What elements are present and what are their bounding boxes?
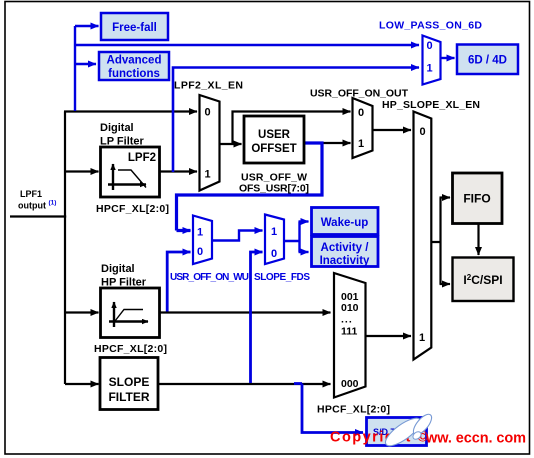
svg-text:0: 0 [205, 107, 211, 119]
wire black trunk vertical [64, 112, 66, 385]
wire USR_OFF_ON_WU output to SLOPE_FDS input 1 [212, 231, 263, 241]
svg-text:0: 0 [420, 126, 426, 138]
wire HP filter output to selector mux [160, 311, 331, 313]
svg-text:USR_OFF_ON_OUT: USR_OFF_ON_OUT [310, 88, 409, 100]
box Free-fall [101, 13, 168, 40]
wire LPF2 output riser to LOW_PASS_ON_6D input 1 [173, 68, 419, 173]
box S/D TAP [367, 418, 427, 446]
svg-text:111: 111 [341, 326, 358, 338]
box 6D/4D [457, 45, 518, 75]
svg-text:...: ... [341, 314, 353, 326]
wire blue USER OFFSET tap to USR_OFF_ON_WU input 1 [177, 143, 323, 231]
wire to I2C/SPI [440, 283, 451, 285]
svg-text:Activity /: Activity / [321, 242, 370, 254]
wire LOW_PASS_ON_6D output to 6D/4D [441, 57, 455, 59]
svg-text:1: 1 [358, 138, 364, 150]
svg-text:SLOPE: SLOPE [109, 375, 150, 389]
mux HPCF selector [334, 273, 366, 398]
svg-text:OFS_USR[7:0]: OFS_USR[7:0] [239, 183, 309, 195]
box SLOPE FILTER [100, 358, 158, 410]
wire blue to Advanced functions [75, 63, 96, 65]
svg-text:Digital: Digital [100, 122, 134, 134]
svg-text:LPF2_XL_EN: LPF2_XL_EN [174, 80, 243, 92]
box HP filter [101, 288, 160, 338]
wire blue HP output tap to USR_OFF_ON_WU input 0 [167, 252, 190, 312]
wire to FIFO [440, 196, 451, 198]
svg-text:000: 000 [341, 378, 359, 390]
wire USER OFFSET output to USR_OFF_ON_OUT input 1 [304, 142, 351, 144]
wire LPF1 output stub [10, 215, 66, 217]
box LPF2 [101, 147, 160, 197]
wire trunk to HP filter input [65, 311, 99, 313]
watermark copyright text [330, 430, 526, 447]
svg-text:output: output [18, 201, 46, 211]
svg-text:USR_OFF_ON_WU: USR_OFF_ON_WU [170, 272, 249, 283]
svg-text:ww. eccn. com: ww. eccn. com [425, 431, 526, 447]
wire branch up to USR_OFF_ON_OUT input 0 [233, 112, 351, 145]
svg-text:SLOPE_FDS: SLOPE_FDS [254, 272, 310, 283]
wire blue to LOW_PASS_ON_6D input 0 [75, 44, 419, 46]
svg-text:6D / 4D: 6D / 4D [468, 55, 507, 67]
wire trunk to LPF2 box input [65, 170, 99, 172]
svg-text:010: 010 [341, 302, 359, 314]
box Wake-up [312, 208, 379, 235]
svg-text:USER: USER [258, 129, 291, 141]
wire SLOPE FILTER output to selector mux [158, 383, 331, 385]
svg-text:0: 0 [427, 40, 433, 52]
svg-text:1: 1 [419, 332, 425, 344]
svg-text:1: 1 [205, 169, 211, 181]
wire trunk to SLOPE FILTER input [65, 383, 99, 385]
label LPF1 output [18, 189, 56, 211]
svg-text:LOW_PASS_ON_6D: LOW_PASS_ON_6D [379, 20, 482, 32]
svg-text:0: 0 [358, 107, 364, 119]
svg-text:HPCF_XL[2:0]: HPCF_XL[2:0] [317, 404, 390, 416]
svg-text:Digital: Digital [101, 263, 135, 275]
wire blue to Free-fall [75, 25, 99, 27]
svg-text:(1): (1) [49, 200, 57, 207]
svg-text:0: 0 [197, 246, 203, 258]
svg-text:Wake-up: Wake-up [321, 217, 369, 229]
mux LOW_PASS_ON_6D [423, 36, 441, 85]
svg-text:HPCF_XL[2:0]: HPCF_XL[2:0] [94, 343, 167, 355]
box Advanced functions [99, 52, 169, 80]
mux LPF2_XL_EN [200, 95, 220, 191]
svg-text:Free-fall: Free-fall [112, 22, 157, 34]
svg-text:OFFSET: OFFSET [251, 143, 296, 155]
svg-text:Advanced: Advanced [107, 55, 162, 67]
mux HP_SLOPE_XL_EN [414, 112, 432, 360]
svg-text:1: 1 [271, 226, 277, 238]
svg-text:Inactivity: Inactivity [320, 255, 370, 267]
svg-text:functions: functions [108, 68, 160, 80]
wire SLOPE_FDS output branch [284, 222, 300, 253]
svg-text:0: 0 [271, 248, 277, 260]
svg-text:FILTER: FILTER [108, 390, 149, 404]
mux SLOPE_FDS [265, 215, 284, 265]
wire blue trunk [74, 26, 76, 111]
svg-text:LPF2: LPF2 [128, 152, 156, 164]
svg-text:LPF1: LPF1 [20, 189, 42, 199]
svg-text:HPCF_XL[2:0]: HPCF_XL[2:0] [96, 203, 169, 215]
svg-text:HP_SLOPE_XL_EN: HP_SLOPE_XL_EN [382, 99, 480, 111]
box I2C/SPI [453, 258, 514, 302]
wire LPF2 output to mux input 1 [160, 170, 197, 172]
wire to Wake-up [299, 220, 309, 222]
svg-text:1: 1 [427, 63, 433, 75]
svg-text:1: 1 [197, 227, 203, 239]
wire to Activity [299, 251, 309, 253]
box Activity / Inactivity [312, 237, 379, 268]
wire FIFO to I2C/SPI [477, 224, 479, 256]
wire blue slope tap to SLOPE_FDS input 0 [251, 252, 263, 383]
wire HP_SLOPE_XL_EN output branch [431, 198, 440, 285]
watermark swoosh [382, 411, 435, 450]
wire LPF2_XL_EN mux output to USER OFFSET [220, 143, 242, 145]
wire trunk to LPF2_XL_EN mux input 0 [64, 110, 197, 112]
box USER OFFSET [244, 116, 304, 163]
box FIFO [453, 173, 503, 224]
mux USR_OFF_ON_OUT [353, 98, 373, 158]
wire USR_OFF_ON_OUT output to HP_SLOPE_XL_EN input 0 [373, 129, 412, 131]
wire blue to S/D box [294, 384, 363, 433]
wire selector mux output to HP_SLOPE_XL_EN input 1 [366, 335, 412, 337]
svg-text:FIFO: FIFO [463, 192, 490, 206]
mux USR_OFF_ON_WU [193, 216, 212, 265]
